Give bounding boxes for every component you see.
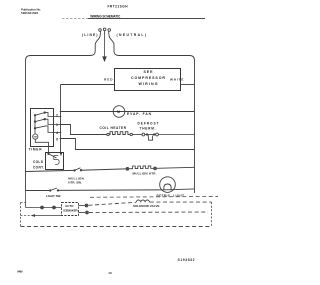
wire: compressor feed vertical (node to timer terminals) <box>60 85 62 154</box>
wire: rail drop to icemaker <box>25 191 27 208</box>
wire: line side from plug to left rail <box>26 36 101 191</box>
auto icemaker box <box>62 203 79 216</box>
svg-text:COMPRESSOR: COMPRESSOR <box>131 76 165 80</box>
wire: timer X terminal to right rail row <box>61 139 195 150</box>
dashed left vertical <box>20 203 22 227</box>
power cord plug prongs <box>99 28 111 35</box>
svg-text:(NEUTRAL): (NEUTRAL) <box>117 33 147 37</box>
svg-text:10: 10 <box>108 271 112 275</box>
svg-text:ICEMAKER: ICEMAKER <box>63 209 78 213</box>
svg-text:(LINE): (LINE) <box>82 33 98 37</box>
evap fan motor <box>113 106 125 118</box>
svg-text:TM: TM <box>34 137 37 139</box>
dashed right vertical <box>211 202 213 226</box>
wire: compressor row left <box>61 84 115 86</box>
wire: mullion heater row <box>26 170 74 171</box>
wire: compressor row right <box>181 84 195 86</box>
wire: neutral side from plug to right rail <box>109 36 195 189</box>
solenoid valve coil <box>136 200 149 202</box>
wire: light row <box>26 190 50 192</box>
defrost timer box <box>31 109 54 147</box>
header rule <box>88 18 205 20</box>
refrigerator light bulb <box>160 177 195 193</box>
svg-text:S193832: S193832 <box>178 258 195 262</box>
wire: icemaker lower output <box>79 211 89 214</box>
svg-text:1: 1 <box>56 123 58 127</box>
svg-text:5995321508: 5995321508 <box>21 11 38 15</box>
wire: jog from timer terminal to coil heater row <box>61 125 107 135</box>
wire: evap fan row <box>61 111 195 113</box>
svg-text:CONT.: CONT. <box>33 165 44 169</box>
compressor wiring box <box>115 69 181 91</box>
svg-text:2: 2 <box>56 113 58 117</box>
svg-text:RED: RED <box>104 78 113 82</box>
svg-text:MULLION HTR.: MULLION HTR. <box>133 172 157 176</box>
cold control contacts <box>48 153 62 165</box>
light switch <box>49 188 58 191</box>
dashed bottom <box>21 226 212 228</box>
dashed top stub <box>21 202 27 204</box>
svg-text:WIRING SCHEMATIC: WIRING SCHEMATIC <box>90 15 121 19</box>
svg-text:4: 4 <box>56 131 58 135</box>
svg-text:COLD: COLD <box>33 160 44 164</box>
defrost thermostat <box>130 133 195 140</box>
wire: icemaker upper output <box>79 204 88 207</box>
svg-text:WHITE: WHITE <box>170 78 184 82</box>
wire: icemaker feed with connectors <box>26 206 62 209</box>
svg-text:AUTO: AUTO <box>65 204 74 208</box>
svg-text:HTR. SW.: HTR. SW. <box>68 180 82 184</box>
timer motor TM <box>33 134 38 139</box>
timer internals <box>33 112 61 154</box>
header publication label <box>21 7 41 15</box>
svg-text:WIRING: WIRING <box>139 82 158 86</box>
svg-text:COIL HEATER: COIL HEATER <box>100 126 127 130</box>
svg-text:LIGHT SW.: LIGHT SW. <box>46 194 61 198</box>
svg-text:X: X <box>56 137 59 141</box>
mullion heater resistor with connectors <box>126 166 195 170</box>
cold control box <box>46 153 64 170</box>
svg-text:SOLENOID VALVE: SOLENOID VALVE <box>133 204 160 208</box>
svg-text:0499: 0499 <box>17 270 23 274</box>
svg-text:TIMER: TIMER <box>29 148 43 152</box>
wire: icemaker lower feed with arrow connector <box>21 215 31 217</box>
svg-text:EVAP. FAN: EVAP. FAN <box>127 112 152 116</box>
svg-text:THERM.: THERM. <box>140 126 156 130</box>
svg-text:DEFROST: DEFROST <box>138 122 159 126</box>
dashed wire exiting page right <box>90 195 218 198</box>
svg-text:SEE: SEE <box>144 70 154 74</box>
mullion heater switch <box>74 168 82 171</box>
coil heater (defrost heater) resistor <box>107 133 109 135</box>
svg-text:M: M <box>117 110 120 114</box>
dashed to right vertical <box>150 201 212 203</box>
ground wire with arrow <box>103 36 106 62</box>
svg-text:FRT21SGH: FRT21SGH <box>108 4 129 8</box>
